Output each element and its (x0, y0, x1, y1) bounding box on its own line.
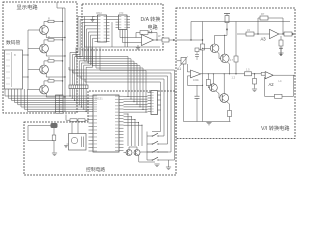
svg-text:R7: R7 (261, 12, 265, 16)
svg-text:89C51: 89C51 (95, 97, 103, 101)
svg-text:A3: A3 (261, 37, 267, 42)
svg-text:100k: 100k (193, 78, 199, 82)
svg-text:R: R (48, 76, 50, 80)
svg-text:控制电路: 控制电路 (86, 166, 105, 173)
svg-text:数码管: 数码管 (6, 39, 21, 46)
svg-text:1.5: 1.5 (246, 68, 250, 72)
svg-text:R: R (48, 16, 50, 20)
svg-text:4.7: 4.7 (230, 58, 234, 62)
svg-text:A1: A1 (177, 67, 181, 71)
svg-text:R: R (48, 35, 50, 39)
svg-text:D/A 转换: D/A 转换 (141, 16, 161, 23)
svg-text:显示电路: 显示电路 (17, 3, 39, 11)
svg-text:A2: A2 (269, 82, 275, 87)
svg-text:373: 373 (119, 11, 124, 15)
svg-text:V/I 转换电路: V/I 转换电路 (261, 124, 290, 132)
svg-text:0832: 0832 (96, 11, 102, 15)
svg-text:1.2: 1.2 (232, 76, 236, 80)
svg-text:R: R (48, 56, 50, 60)
svg-text:A4: A4 (148, 30, 154, 35)
